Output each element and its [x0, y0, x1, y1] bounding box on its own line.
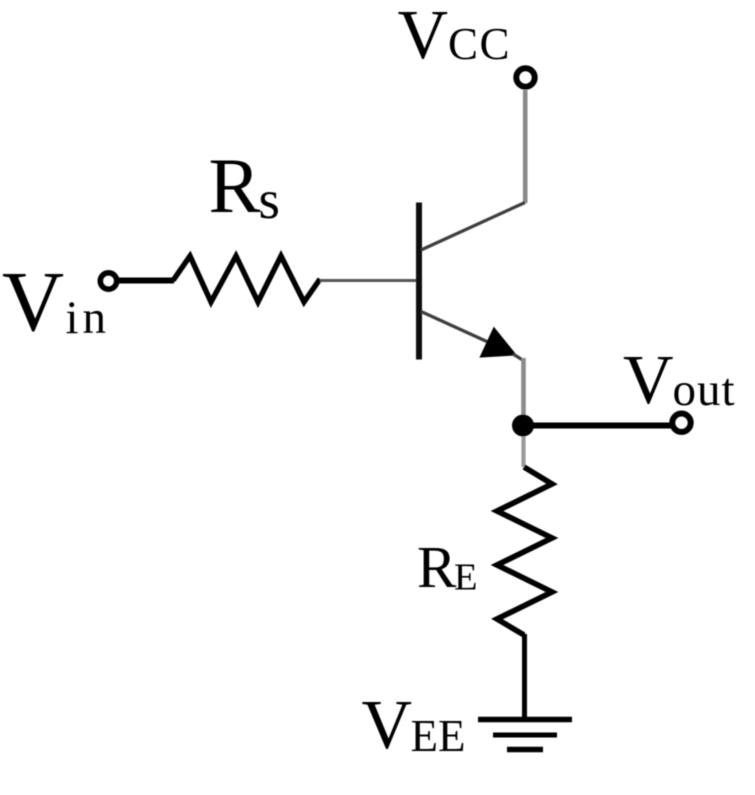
svg-text:out: out [673, 364, 736, 416]
label VEE [362, 687, 466, 764]
wire node to RE [521, 429, 525, 467]
svg-text:EE: EE [411, 711, 466, 761]
terminal VCC [516, 68, 534, 86]
transistor Q1 [419, 203, 525, 361]
label Rs [209, 142, 280, 230]
node emitter junction [512, 415, 534, 437]
svg-text:E: E [454, 557, 478, 599]
wire Vin stub [116, 278, 174, 284]
svg-text:s: s [259, 169, 280, 230]
svg-text:V: V [2, 253, 64, 349]
resistor Rs [173, 256, 320, 302]
label Vout [623, 342, 736, 419]
terminal Vin [100, 273, 116, 289]
wire node to Vout [523, 423, 672, 429]
ground [478, 720, 572, 750]
label VCC [398, 0, 512, 74]
svg-text:R: R [209, 142, 261, 229]
terminal Vout [672, 414, 690, 432]
wire collector riser [523, 90, 528, 203]
svg-text:CC: CC [448, 19, 511, 69]
svg-text:V: V [398, 0, 449, 74]
svg-text:R: R [417, 534, 457, 600]
resistor RE [497, 467, 552, 635]
svg-text:V: V [623, 342, 674, 419]
label RE [417, 534, 478, 600]
label Vin [2, 253, 110, 349]
wire base [320, 279, 416, 282]
svg-text:V: V [362, 687, 413, 764]
wire emitter drop [521, 358, 526, 422]
svg-text:in: in [66, 292, 111, 344]
wire RE to ground [522, 634, 527, 719]
